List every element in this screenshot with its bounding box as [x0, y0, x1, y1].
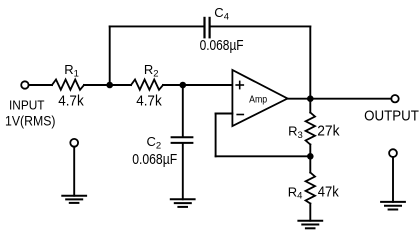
- ground (output side): [381, 202, 405, 210]
- svg-text:1V(RMS): 1V(RMS): [5, 113, 56, 128]
- svg-text:0.068µF: 0.068µF: [132, 151, 177, 168]
- input-side ground terminal: [70, 139, 78, 147]
- node output junction: [307, 95, 314, 102]
- output terminal J2: [391, 95, 398, 102]
- wire node A up to feedback rail: [109, 26, 111, 85]
- ground (C2): [171, 199, 195, 207]
- node A junction: [106, 82, 113, 89]
- svg-text:OUTPUT: OUTPUT: [364, 109, 419, 125]
- wire node B down to C2: [182, 85, 184, 136]
- wire input to R1: [29, 84, 52, 86]
- node B junction: [180, 82, 187, 89]
- wire R1 to R2 through node A: [84, 84, 131, 86]
- wire top rail right of C4: [211, 25, 311, 27]
- wire top rail down to output node: [309, 26, 311, 98]
- ground (R4): [298, 221, 322, 229]
- resistor R2: [131, 80, 163, 90]
- wire R3 to feedback node: [309, 145, 311, 173]
- wire op-amp output to terminal: [288, 98, 392, 100]
- wire R4 to ground: [309, 204, 311, 221]
- svg-text:INPUT: INPUT: [9, 98, 45, 113]
- resistor R3: [306, 113, 315, 145]
- node feedback junction: [307, 153, 314, 160]
- wire top rail left of C4: [110, 25, 204, 27]
- input terminal J1: [21, 81, 28, 88]
- wire terminal to ground: [392, 157, 394, 202]
- op-amp plus sign: [236, 84, 243, 86]
- wire feedback left vertical: [215, 114, 217, 157]
- wire feedback bottom horizontal: [216, 155, 311, 157]
- wire output node to R3: [309, 99, 311, 113]
- capacitor C4: [203, 18, 205, 37]
- svg-text:27k: 27k: [317, 123, 340, 140]
- resistor R1: [52, 80, 84, 90]
- svg-text:0.068µF: 0.068µF: [200, 37, 244, 54]
- op-amp U1: [232, 70, 287, 126]
- svg-text:4.7k: 4.7k: [58, 93, 84, 110]
- svg-text:4.7k: 4.7k: [136, 93, 162, 110]
- wire op-amp minus input: [216, 113, 233, 115]
- output-side ground terminal: [389, 149, 397, 157]
- ground (input side): [62, 196, 86, 203]
- op-amp minus sign: [237, 114, 243, 116]
- svg-text:47k: 47k: [318, 183, 339, 200]
- svg-text:Amp: Amp: [249, 94, 267, 106]
- resistor R4: [306, 173, 315, 204]
- wire R2 to op-amp plus input through node B: [163, 84, 232, 86]
- wire terminal to ground: [73, 147, 75, 196]
- wire C2 to ground: [182, 144, 184, 200]
- capacitor C2: [172, 136, 193, 138]
